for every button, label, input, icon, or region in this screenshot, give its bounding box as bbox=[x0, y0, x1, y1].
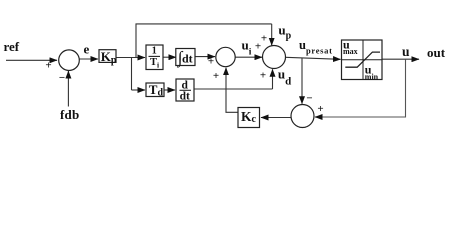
svg-text:+: + bbox=[213, 70, 219, 82]
svg-text:1: 1 bbox=[152, 46, 157, 57]
svg-text:−: − bbox=[306, 93, 312, 105]
svg-text:+: + bbox=[45, 60, 51, 72]
svg-text:+: + bbox=[260, 70, 266, 82]
svg-text:+: + bbox=[208, 56, 214, 68]
svg-text:out: out bbox=[427, 45, 446, 60]
svg-text:ref: ref bbox=[4, 39, 20, 54]
svg-text:u: u bbox=[402, 44, 410, 59]
svg-text:e: e bbox=[84, 42, 90, 57]
svg-text:fdb: fdb bbox=[60, 107, 79, 122]
svg-text:min: min bbox=[365, 72, 379, 81]
svg-text:+: + bbox=[317, 103, 323, 115]
svg-text:dt: dt bbox=[180, 91, 190, 103]
svg-text:∫dt: ∫dt bbox=[177, 48, 193, 68]
svg-text:max: max bbox=[343, 47, 358, 56]
svg-text:−: − bbox=[59, 72, 65, 84]
svg-text:+: + bbox=[261, 33, 267, 45]
svg-text:d: d bbox=[182, 79, 189, 91]
